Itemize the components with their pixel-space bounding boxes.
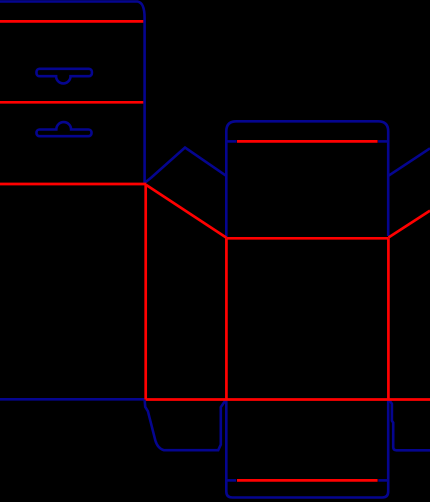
- cut: tick left of top flap crease: [226, 140, 236, 143]
- cut: bottom main flap outline with rounded bottom corners: [226, 400, 388, 497]
- cut: thumb slot 1 (notch down): [37, 69, 92, 84]
- cut: top tuck flap outline with rounded corners: [226, 121, 388, 237]
- cut: top-left flap top edge with rounded corner and left panel column right cut edge: [0, 2, 145, 184]
- crease: main panel right vertical fold: [387, 238, 390, 399]
- crease: left column fold 3: [0, 183, 146, 186]
- crease: main panel left vertical fold: [225, 238, 228, 399]
- cut: gusset peak between panels: [145, 148, 226, 183]
- crease: bottom flap fold: [237, 479, 378, 482]
- cut: tick right of bottom flap crease: [378, 479, 388, 482]
- crease: left column fold 2: [0, 101, 143, 104]
- cut: left dust flap outline: [145, 400, 227, 450]
- crease: left column fold 1: [0, 20, 143, 23]
- crease: top fold of main panel: [226, 237, 388, 240]
- cut: bottom edge of left panel column: [0, 398, 144, 401]
- crease: bottom fold line across panels: [146, 398, 430, 401]
- crease: top tuck flap fold: [237, 140, 378, 143]
- cut: thumb slot 2 (bump up): [37, 122, 92, 136]
- cut: tick left of bottom flap crease: [226, 479, 236, 482]
- crease: left gusset diagonal fold: [146, 185, 226, 238]
- crease: right gusset diagonal fold (truncated by edge): [389, 211, 430, 238]
- cut: right dust flap outline (truncated by edge): [390, 400, 430, 450]
- cut: right gusset diagonal (truncated by edge): [388, 148, 430, 176]
- crease: left column right-side vertical fold: [144, 185, 147, 400]
- cut: tick right of top flap crease: [378, 140, 388, 143]
